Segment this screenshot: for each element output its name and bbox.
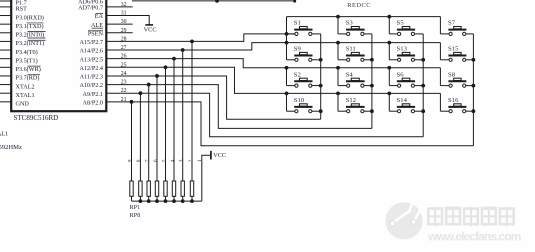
switch S10 push-button: [287, 97, 321, 113]
svg-text:S9: S9: [294, 46, 302, 53]
wire keypad column 1 left-side connectors: [286, 17, 288, 112]
switch S15 push-button: [440, 46, 473, 62]
svg-text:P3.1(TXD): P3.1(TXD): [16, 23, 44, 30]
wire keypad column 3 left-side connectors: [388, 17, 390, 112]
wire P2.2 (pin 23) return line to keypad column 2: [106, 83, 372, 129]
svg-text:P3.2(INT1): P3.2(INT1): [16, 40, 45, 47]
wire top distribution bus of keypad: [287, 15, 441, 19]
switch S8 push-button: [440, 71, 473, 87]
resistor RP8 element pin 5 (pull-up for P2.4): [161, 67, 167, 201]
switch S7 push-button: [440, 20, 473, 36]
svg-text:P3.7(RD): P3.7(RD): [16, 75, 40, 82]
svg-text:A8/P2.0: A8/P2.0: [83, 99, 103, 106]
svg-text:S1: S1: [294, 20, 301, 27]
wire RP8 common bus: [132, 199, 202, 203]
wire keypad column 2 right-side line: [370, 34, 374, 128]
svg-text:RP1: RP1: [130, 204, 141, 211]
U1 left pin P3.5(T1): [0, 57, 38, 64]
U1 left pin P3.0(RXD): [0, 14, 44, 21]
svg-text:A13/P2.5: A13/P2.5: [79, 56, 103, 63]
PSEN overline: [88, 28, 103, 31]
svg-text:STC89C516RD: STC89C516RD: [14, 114, 59, 122]
svg-text:29: 29: [121, 28, 127, 34]
svg-text:S6: S6: [397, 71, 405, 78]
svg-text:S11: S11: [346, 46, 356, 53]
svg-text:32: 32: [121, 2, 127, 8]
switch S12 push-button: [338, 97, 372, 113]
svg-text:VCC: VCC: [213, 152, 226, 159]
svg-text:S4: S4: [346, 71, 354, 78]
svg-text:AL1: AL1: [0, 130, 8, 137]
U1 right pin number 26 A13/P2.5: [79, 54, 126, 64]
switch S1 push-button: [287, 20, 321, 36]
U1 left pin P3.4(T0): [0, 49, 38, 56]
label 11.06MHz value (clipped): [0, 144, 22, 151]
U1 right pin 31 EA with overline: [95, 11, 127, 21]
power VCC symbol at pin 31 (EA): [106, 16, 156, 34]
U1 left pin P3.2(INT0): [0, 32, 46, 39]
U1 right pin 30 ALE: [91, 19, 133, 29]
U1 right pin number 24 A11/P2.3: [80, 71, 127, 81]
svg-text:30: 30: [121, 19, 127, 25]
svg-text:AD6/P0.6: AD6/P0.6: [78, 0, 103, 6]
wire along top edge (clipped net to P0 column): [132, 0, 296, 3]
svg-text:8: 8: [136, 159, 142, 162]
U1 left pin P1.7: [0, 0, 27, 6]
wire P2.4 (pin 25) horizontal bus above row 4: [106, 65, 440, 95]
switch S16 push-button: [440, 97, 473, 113]
svg-text:VCC: VCC: [144, 27, 157, 34]
power VCC at RP8 common (pin 1): [197, 151, 226, 201]
wire keypad column 3 right-side line: [421, 34, 425, 137]
wire P2.1 (pin 22) return line to keypad column 3: [106, 91, 423, 137]
svg-text:6: 6: [153, 159, 159, 162]
switch S14 push-button: [389, 97, 423, 113]
svg-text:A12/P2.4: A12/P2.4: [79, 65, 103, 72]
IC U1 STC89C516RD microcontroller body: [11, 0, 106, 122]
svg-text:S3: S3: [346, 20, 354, 27]
svg-text:A10/P2.2: A10/P2.2: [79, 82, 103, 89]
U1 right pin number 28 A15/P2.7: [79, 36, 126, 46]
resistor RP8 element pin 9 (pull-up for P2.0): [127, 102, 133, 201]
switch S2 push-button: [287, 71, 321, 87]
svg-text:S16: S16: [448, 97, 459, 104]
U1 left pin RST: [0, 6, 27, 13]
svg-text:9: 9: [127, 159, 133, 162]
switch S6 push-button: [389, 71, 423, 87]
U1 left pin GND: [0, 101, 29, 108]
svg-text:S7: S7: [448, 20, 456, 27]
label crystal AL1 (clipped): [0, 130, 8, 137]
U1 left pin P3.2(INT1): [0, 40, 46, 47]
wire keypad column 1 right-side line: [319, 34, 323, 119]
svg-text:P3.2(INT0): P3.2(INT0): [16, 32, 45, 39]
svg-text:EA: EA: [95, 13, 104, 20]
svg-text:S2: S2: [294, 71, 301, 78]
svg-text:P3.6(WR): P3.6(WR): [16, 66, 41, 73]
U1 left pin XTAL1: [0, 92, 35, 99]
svg-text:S5: S5: [397, 20, 405, 27]
svg-text:ALE: ALE: [91, 22, 103, 29]
svg-text:2: 2: [188, 159, 194, 162]
svg-text:S12: S12: [346, 97, 356, 104]
svg-text:S8: S8: [448, 71, 456, 78]
switch S4 push-button: [338, 71, 372, 87]
resistor RP8 element pin 2 (pull-up for P2.7): [188, 41, 194, 201]
svg-text:S13: S13: [397, 46, 408, 53]
svg-text:A9/P2.1: A9/P2.1: [83, 91, 103, 98]
label RP1 / RP8 designator: [130, 204, 141, 219]
svg-text:3: 3: [179, 159, 185, 162]
switch S9 push-button: [287, 46, 321, 62]
svg-text:XTAL2: XTAL2: [16, 83, 35, 90]
svg-text:P3.4(T0): P3.4(T0): [16, 49, 38, 56]
svg-text:XTAL1: XTAL1: [16, 92, 35, 99]
U1 right pin 33 AD6/P0.6 (clipped): [78, 0, 103, 6]
svg-text:PSEN: PSEN: [88, 30, 104, 37]
switch S3 push-button: [338, 20, 372, 36]
svg-text:S14: S14: [397, 97, 408, 104]
resistor RP8 element pin 3 (pull-up for P2.6): [179, 50, 185, 201]
wire P2.5 (pin 26) horizontal bus above row 3: [106, 57, 440, 70]
svg-text:5: 5: [161, 159, 167, 162]
svg-text:A15/P2.7: A15/P2.7: [79, 39, 103, 46]
U1 right pin number 27 A14/P2.6: [79, 45, 126, 55]
svg-text:P3.0(RXD): P3.0(RXD): [16, 14, 44, 21]
svg-text:592HMz: 592HMz: [0, 144, 22, 151]
label REDCC net name: [347, 2, 371, 9]
wire P2.6 (pin 27) horizontal bus above row 2: [106, 41, 440, 52]
U1 right pin number 25 A12/P2.4: [79, 62, 126, 72]
wire keypad column 4 left-side connectors: [439, 17, 441, 112]
svg-text:S15: S15: [448, 46, 459, 53]
U1 right pin 29 PSEN: [88, 28, 133, 38]
switch S11 push-button: [338, 46, 372, 62]
wire P2.0 (pin 21) return line to keypad column 4: [106, 100, 473, 146]
svg-text:RST: RST: [16, 6, 28, 13]
svg-text:7: 7: [145, 159, 151, 162]
svg-text:REDCC: REDCC: [347, 2, 371, 9]
resistor RP8 element pin 8 (pull-up for P2.1): [136, 93, 142, 201]
U1 left pin P3.6(WR): [0, 66, 41, 73]
svg-text:www.elecfans.com: www.elecfans.com: [427, 229, 521, 243]
U1 right pin number 21 A8/P2.0: [83, 97, 127, 107]
svg-text:GND: GND: [16, 101, 30, 108]
svg-text:1: 1: [197, 159, 203, 162]
switch S13 push-button: [389, 46, 423, 62]
resistor RP8 element pin 7 (pull-up for P2.2): [145, 85, 151, 202]
svg-text:4: 4: [170, 159, 176, 162]
U1 right pin number 22 A9/P2.1: [83, 88, 127, 98]
U1 left pin XTAL2: [0, 83, 35, 90]
svg-text:P3.5(T1): P3.5(T1): [16, 57, 38, 64]
U1 right pin number 23 A10/P2.2: [79, 80, 126, 90]
wire keypad column 4 right-side line: [472, 34, 476, 146]
svg-text:S10: S10: [294, 97, 305, 104]
svg-text:RP8: RP8: [130, 212, 141, 219]
svg-text:A11/P2.3: A11/P2.3: [80, 74, 103, 81]
wire keypad column 2 left-side connectors: [337, 17, 339, 112]
svg-text:A14/P2.6: A14/P2.6: [79, 48, 103, 55]
resistor RP8 element pin 4 (pull-up for P2.5): [170, 59, 176, 201]
wire P2.3 (pin 24) return line to keypad column 1: [106, 74, 320, 119]
U1 right pin 32 AD7/P0.7: [78, 2, 133, 12]
switch S5 push-button: [389, 20, 423, 36]
U1 left pin P3.1(TXD): [0, 23, 44, 30]
U1 left pin P3.7(RD): [0, 75, 40, 82]
wire P2.7 (pin 28) to keypad row S1, junction at pull-up drop: [106, 32, 295, 43]
resistor RP8 element pin 6 (pull-up for P2.3): [153, 76, 159, 201]
